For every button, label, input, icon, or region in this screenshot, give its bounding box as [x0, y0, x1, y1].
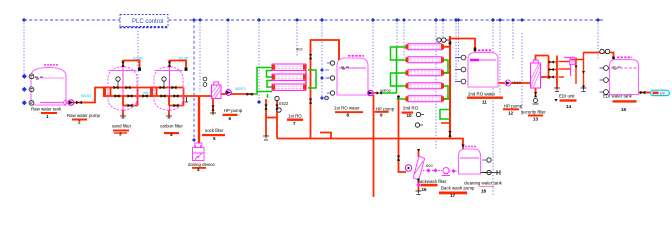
svg-text:5: 5	[213, 136, 216, 141]
svg-text:9: 9	[380, 112, 383, 117]
svg-text:EDI water tank: EDI water tank	[603, 94, 633, 99]
svg-text:402: 402	[296, 47, 303, 52]
svg-text:sock filter: sock filter	[205, 128, 224, 133]
svg-text:security filter: security filter	[521, 110, 546, 115]
svg-text:2nd RO: 2nd RO	[403, 106, 419, 111]
svg-text:18: 18	[481, 189, 487, 194]
svg-text:16: 16	[422, 187, 428, 192]
svg-text:UV: UV	[660, 92, 665, 96]
svg-text:2: 2	[78, 119, 81, 124]
svg-text:600: 600	[426, 163, 433, 168]
svg-text:D12K: D12K	[179, 56, 189, 61]
svg-text:carbon filter: carbon filter	[160, 124, 183, 129]
svg-text:1st RO: 1st RO	[288, 114, 302, 119]
svg-text:0422: 0422	[279, 101, 289, 106]
svg-text:10: 10	[407, 113, 413, 118]
svg-text:D12K: D12K	[133, 56, 143, 61]
svg-text:13: 13	[533, 117, 539, 122]
svg-text:6: 6	[229, 116, 232, 121]
svg-text:12: 12	[508, 111, 514, 116]
svg-text:15: 15	[621, 107, 627, 112]
svg-text:HP pump: HP pump	[504, 104, 523, 109]
svg-text:8: 8	[347, 113, 350, 118]
svg-text:4: 4	[197, 167, 200, 172]
svg-text:W102: W102	[143, 90, 154, 95]
svg-text:EDI unit: EDI unit	[559, 94, 575, 99]
svg-text:PLC control: PLC control	[132, 19, 163, 25]
svg-text:W203: W203	[235, 86, 246, 91]
svg-text:11: 11	[482, 100, 487, 105]
svg-text:WP02: WP02	[380, 88, 392, 93]
svg-text:sand filter: sand filter	[112, 124, 132, 129]
svg-text:Back wash pump: Back wash pump	[441, 185, 475, 190]
svg-text:7: 7	[293, 121, 296, 126]
svg-text:17: 17	[450, 193, 456, 197]
svg-text:1: 1	[46, 114, 49, 119]
svg-text:3: 3	[119, 132, 122, 137]
svg-text:backwash filter: backwash filter	[418, 179, 448, 184]
svg-text:2nd RO water: 2nd RO water	[468, 92, 496, 97]
svg-text:Raw water tank: Raw water tank	[31, 107, 62, 112]
svg-text:dosing device: dosing device	[188, 162, 215, 167]
svg-text:Raw water pump: Raw water pump	[67, 113, 101, 118]
svg-text:cleaning water tank: cleaning water tank	[464, 181, 503, 186]
svg-text:1st RO water: 1st RO water	[334, 106, 360, 111]
svg-text:W4D: W4D	[513, 80, 522, 85]
svg-text:HP pump: HP pump	[224, 108, 243, 113]
svg-text:14: 14	[566, 104, 572, 109]
svg-text:HP pump: HP pump	[376, 107, 395, 112]
svg-text:4: 4	[170, 132, 173, 137]
svg-text:W101: W101	[81, 93, 92, 98]
